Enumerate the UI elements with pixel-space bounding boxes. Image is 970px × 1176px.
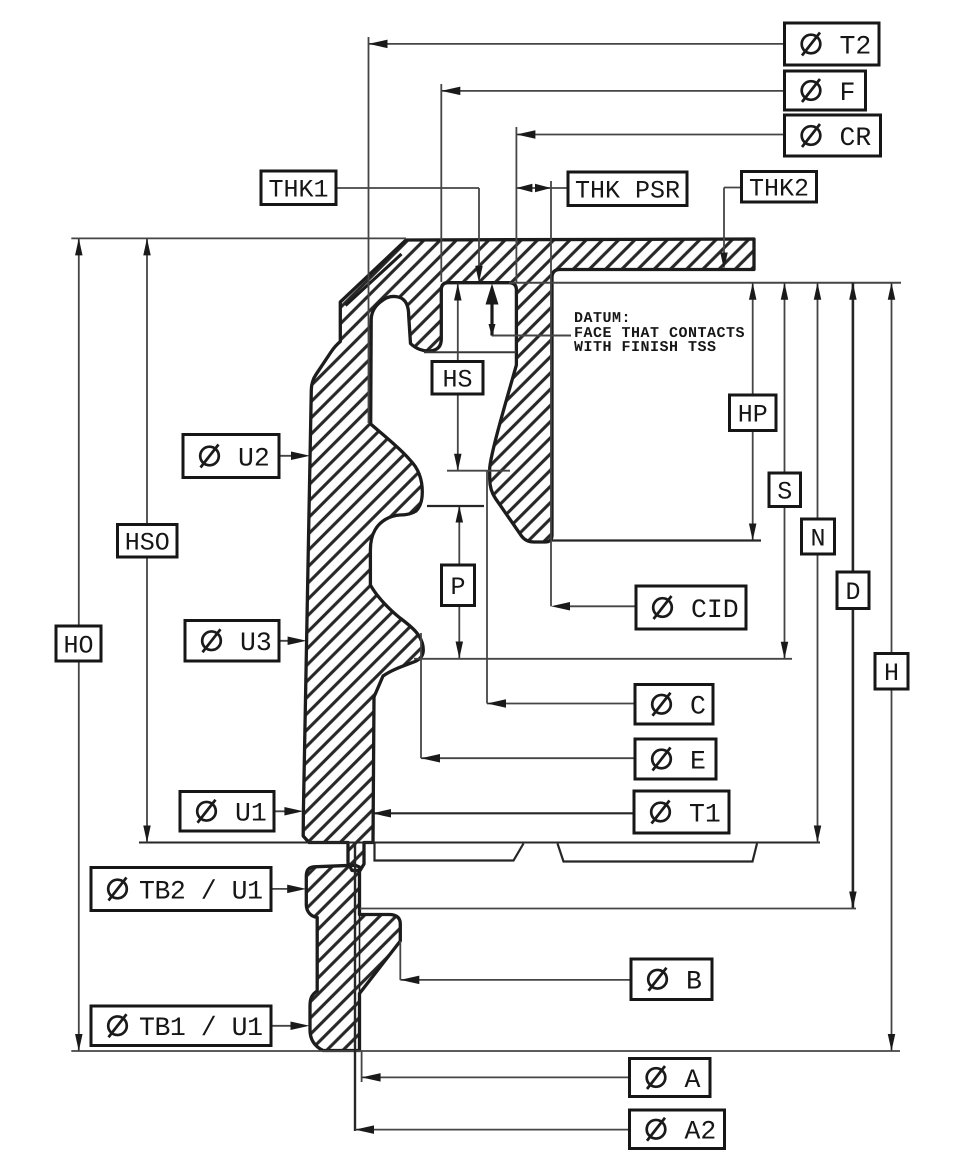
dim HSO top arrow (143, 238, 151, 255)
label D (837, 572, 869, 609)
dim Ø CR leader (516, 134, 784, 136)
counterbore floor edge line y=352 (424, 351, 516, 353)
dim N top arrow (814, 283, 822, 300)
svg-text:N: N (810, 524, 825, 553)
svg-text:A: A (685, 1065, 701, 1095)
dim Ø B arrow (400, 976, 419, 985)
label Ø U3 (185, 621, 279, 662)
dim H vertical line (891, 283, 893, 1051)
svg-text:TB2 / U1: TB2 / U1 (139, 876, 263, 906)
label HS (432, 362, 483, 395)
dim HO top arrow (75, 238, 83, 255)
dim HSO vertical line (146, 238, 148, 842)
dim Ø U1 arrow (284, 807, 303, 816)
dim S top arrow (781, 283, 789, 300)
dim Ø CR extension line (515, 127, 517, 282)
label Ø TB1 / U1 (91, 1006, 271, 1046)
dim Ø TB2/U1 arrow (287, 885, 306, 894)
svg-text:H: H (884, 659, 899, 688)
dim N vertical line (817, 283, 819, 843)
dim THK PSR left arrow (516, 184, 532, 193)
svg-text:HS: HS (442, 366, 472, 395)
HS bottom tick line (447, 470, 510, 472)
dim Ø TB2/U1 leader (271, 888, 299, 890)
label Ø T2 (785, 23, 880, 65)
svg-text:THK2: THK2 (749, 175, 809, 204)
dim Ø A2 arrow (355, 1125, 374, 1134)
label Ø U1 (180, 792, 274, 832)
dim Ø A extension line (361, 1051, 363, 1082)
dim Ø T2 extension line (368, 37, 370, 423)
dim Ø C arrow (487, 699, 506, 708)
HP bottom extension line (552, 539, 761, 541)
label S (769, 473, 801, 507)
dim Ø E arrow (421, 754, 440, 763)
part cross-section: upper body (flange, walls, bore) (303, 239, 754, 871)
dim Ø U3 leader (279, 640, 299, 642)
lip B under flange (558, 844, 758, 862)
dim Ø CID leader (556, 605, 636, 607)
label HO (56, 626, 101, 661)
dim Ø F arrow (441, 87, 460, 96)
dim HP top arrow (749, 283, 757, 300)
dim Ø U2 leader (279, 455, 302, 457)
label P (442, 565, 475, 606)
svg-text:HO: HO (63, 631, 93, 660)
chamfer edge second line (top-left chamfer) (346, 254, 402, 306)
dim THK PSR / Ø CID extension line x=551 (550, 181, 552, 606)
label Ø CID (636, 586, 746, 629)
svg-text:HSO: HSO (125, 529, 170, 558)
svg-text:T2: T2 (840, 31, 872, 61)
dim Ø T2 leader (369, 43, 785, 45)
label Ø F (785, 71, 866, 110)
dim HP bottom arrow (749, 524, 757, 541)
dim H bottom arrow (888, 1034, 896, 1051)
svg-text:WITH FINISH TSS: WITH FINISH TSS (574, 339, 717, 356)
dim THK1 arrow (475, 266, 483, 283)
dim D top arrow (849, 283, 857, 300)
label THK1 (261, 171, 336, 205)
dim H top arrow (888, 283, 896, 300)
dim THK1 leader (336, 187, 479, 189)
svg-text:CID: CID (691, 595, 739, 625)
dim Ø U2 arrow (291, 452, 310, 461)
lip A under flange (375, 843, 524, 861)
dim P bottom arrow (456, 642, 464, 659)
dim HSO bottom arrow (143, 826, 151, 843)
dim Ø A2 extension line (long) (354, 843, 356, 1132)
dim Ø C extension line (486, 470, 488, 704)
dim Ø CID arrow (551, 602, 570, 611)
dim THK PSR measure lines (516, 187, 568, 189)
dim Ø E leader (421, 757, 635, 759)
dim Ø B extension line (399, 941, 401, 980)
label HSO (118, 525, 178, 558)
dim Ø E extension line (420, 633, 422, 758)
datum arrow (486, 284, 499, 305)
label Ø A2 (630, 1110, 725, 1149)
P top tick line (427, 505, 484, 507)
label THK2 (742, 172, 817, 204)
dim P vertical line (458, 506, 460, 659)
dim P top arrow (456, 506, 464, 523)
svg-text:A2: A2 (685, 1117, 717, 1147)
dim THK2 leader (724, 187, 742, 189)
dim THK2 arrow (720, 253, 728, 270)
svg-text:F: F (840, 78, 856, 108)
svg-text:U2: U2 (238, 443, 270, 473)
dim N bottom arrow (814, 826, 822, 843)
dim Ø B leader (400, 979, 631, 981)
svg-text:B: B (686, 967, 702, 997)
svg-text:E: E (690, 746, 706, 776)
dim Ø F extension line (440, 84, 442, 282)
dim S bottom arrow (781, 642, 789, 659)
svg-text:HP: HP (738, 401, 768, 430)
svg-text:THK1: THK1 (268, 176, 328, 205)
dim Ø T2 arrow (369, 40, 388, 49)
svg-text:CR: CR (840, 123, 872, 153)
dim D vertical line (852, 283, 855, 909)
svg-text:S: S (777, 478, 792, 507)
part cross-section: lower piece (tail bushing with side lump) (306, 865, 400, 1050)
label Ø E (635, 739, 716, 779)
dim Ø F leader (441, 90, 784, 92)
dim Ø T1 arrow (372, 809, 391, 818)
dim Ø TB1/U1 leader (271, 1025, 302, 1027)
label THK PSR (568, 172, 687, 206)
dim Ø A leader (362, 1076, 630, 1078)
bottom extension line y=1051 (71, 1050, 900, 1052)
svg-text:C: C (690, 692, 706, 722)
svg-text:U1: U1 (235, 799, 267, 829)
top extension line y=238.4 (71, 237, 406, 239)
dim Ø C leader (487, 703, 635, 705)
D bottom extension line (360, 908, 856, 910)
bottom face long line (body bottom / HSO / N extension) (139, 842, 820, 844)
dim THK PSR right arrow (535, 184, 551, 193)
svg-text:TB1 / U1: TB1 / U1 (139, 1013, 263, 1043)
dim D bottom arrow (849, 892, 857, 909)
svg-text:P: P (450, 573, 465, 602)
long extension line y=658.5 (P/S bottom) (414, 658, 792, 660)
label Ø TB2 / U1 (91, 868, 271, 911)
dim Ø TB1/U1 arrow (291, 1022, 310, 1031)
dim HS bottom arrow (454, 454, 462, 471)
label N (802, 519, 835, 554)
label Ø CR (785, 115, 881, 156)
svg-text:THK PSR: THK PSR (575, 177, 680, 206)
dim HO vertical line (78, 238, 80, 1051)
label HP (730, 395, 777, 431)
label Ø A (630, 1059, 711, 1097)
label Ø U2 (183, 435, 279, 478)
datum face line y=282.7 across column and right extension (509, 282, 901, 284)
lower piece inner edge line through lump (359, 915, 361, 994)
dim Ø A2 leader (355, 1129, 630, 1131)
label H (875, 654, 908, 690)
datum leader lower arrow (489, 324, 496, 337)
label Ø T1 (634, 791, 729, 833)
dim HS vertical line (457, 284, 459, 471)
svg-text:U3: U3 (240, 628, 272, 658)
dim HO bottom arrow (75, 1034, 83, 1051)
label Ø C (635, 685, 713, 725)
svg-text:T1: T1 (689, 799, 721, 829)
dim S vertical line (784, 283, 786, 659)
dim Ø A arrow (362, 1073, 381, 1082)
dim Ø T1 leader (372, 812, 634, 814)
dim HP vertical line (752, 283, 754, 541)
dim Ø CR arrow (516, 130, 535, 139)
dim HS top arrow (454, 284, 462, 301)
dim Ø U3 arrow (288, 637, 307, 646)
svg-text:D: D (845, 578, 860, 607)
dim Ø U1 leader (274, 810, 296, 812)
label Ø B (631, 959, 712, 1000)
